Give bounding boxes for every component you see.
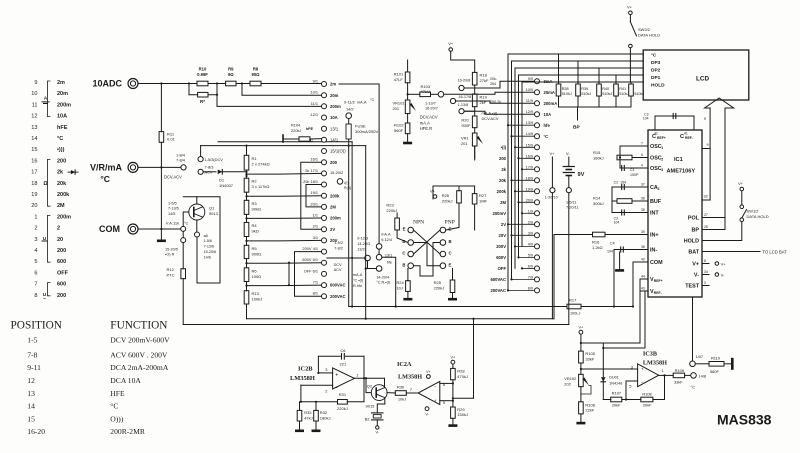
svg-text:R14: R14 bbox=[593, 196, 601, 201]
svg-text:9-12/4: 9-12/4 bbox=[381, 238, 392, 242]
svg-text:14/8: 14/8 bbox=[699, 373, 707, 378]
svg-text:33kF: 33kF bbox=[674, 380, 683, 385]
svg-text:9: 9 bbox=[704, 117, 706, 121]
svg-text:17/9: 17/9 bbox=[526, 165, 533, 169]
svg-text:V+: V+ bbox=[451, 356, 457, 360]
svg-text:°C: °C bbox=[100, 174, 110, 184]
svg-text:•))): •))) bbox=[57, 147, 65, 153]
svg-text:9V: 9V bbox=[578, 172, 585, 178]
svg-text:Q1: Q1 bbox=[209, 206, 215, 211]
svg-text:7-8/4: 7-8/4 bbox=[176, 158, 186, 163]
svg-text:600V 5/1: 600V 5/1 bbox=[302, 257, 318, 262]
svg-text:AME7106Y: AME7106Y bbox=[667, 169, 696, 175]
svg-text:8: 8 bbox=[704, 259, 706, 263]
svg-text:201: 201 bbox=[461, 141, 468, 146]
svg-text:POSITION: POSITION bbox=[11, 320, 62, 332]
svg-text:OSC: OSC bbox=[650, 144, 662, 150]
svg-text:20kF: 20kF bbox=[612, 403, 621, 408]
svg-text:R9: R9 bbox=[228, 67, 234, 72]
svg-text:DCV 200mV-600V: DCV 200mV-600V bbox=[110, 336, 170, 345]
svg-text:3: 3 bbox=[34, 237, 37, 243]
svg-text:LCD: LCD bbox=[696, 76, 710, 83]
svg-text:1MF: 1MF bbox=[479, 198, 488, 203]
svg-text:2: 2 bbox=[34, 226, 37, 232]
svg-text:47kJ: 47kJ bbox=[304, 415, 312, 420]
svg-text:200k: 200k bbox=[330, 193, 340, 198]
svg-text:3/9: 3/9 bbox=[528, 231, 533, 235]
svg-text:10A: 10A bbox=[544, 112, 552, 117]
svg-text:200: 200 bbox=[499, 156, 507, 161]
svg-text:D1: D1 bbox=[219, 178, 225, 183]
svg-text:C4: C4 bbox=[610, 242, 615, 246]
svg-text:DP2: DP2 bbox=[651, 68, 661, 74]
svg-text:2 x 274kΩ: 2 x 274kΩ bbox=[252, 161, 270, 166]
svg-text:OFF: OFF bbox=[57, 270, 69, 276]
svg-text:3: 3 bbox=[325, 367, 328, 372]
svg-text:a8: a8 bbox=[204, 234, 208, 238]
svg-text:200V: 200V bbox=[496, 244, 506, 249]
svg-text:12/9: 12/9 bbox=[526, 110, 533, 114]
svg-text:R10: R10 bbox=[199, 67, 207, 72]
svg-text:°C: °C bbox=[544, 134, 549, 139]
svg-text:MAS838: MAS838 bbox=[717, 412, 772, 428]
svg-text:REF-: REF- bbox=[654, 291, 662, 295]
svg-text:510kJ: 510kJ bbox=[562, 92, 572, 96]
svg-text:9-12/3: 9-12/3 bbox=[357, 237, 368, 241]
svg-text:2/1: 2/1 bbox=[313, 224, 318, 229]
svg-text:R3: R3 bbox=[252, 201, 258, 206]
svg-text:20m: 20m bbox=[330, 93, 339, 98]
svg-text:3: 3 bbox=[661, 168, 663, 172]
svg-text:R102: R102 bbox=[394, 123, 404, 128]
svg-text:FUNCTION: FUNCTION bbox=[110, 320, 167, 332]
svg-text:R29: R29 bbox=[457, 407, 465, 412]
svg-text:510kJ: 510kJ bbox=[602, 92, 612, 96]
svg-text:DP1: DP1 bbox=[651, 75, 661, 81]
svg-text:R5: R5 bbox=[252, 246, 258, 251]
svg-text:R1: R1 bbox=[252, 156, 258, 161]
svg-text:•(l): •(l) bbox=[501, 145, 507, 150]
svg-text:OFF 6/1: OFF 6/1 bbox=[304, 268, 318, 273]
svg-text:1/9: 1/9 bbox=[528, 209, 533, 213]
svg-text:VR1: VR1 bbox=[461, 136, 469, 141]
svg-text:°C: °C bbox=[184, 222, 189, 226]
svg-text:R28: R28 bbox=[457, 369, 465, 374]
svg-text:220kJ: 220kJ bbox=[291, 128, 301, 133]
svg-text:200: 200 bbox=[57, 158, 66, 164]
svg-text:1N4148: 1N4148 bbox=[609, 382, 622, 386]
svg-text:+: + bbox=[335, 372, 338, 378]
svg-text:1-13/8: 1-13/8 bbox=[458, 103, 469, 107]
svg-text:R39: R39 bbox=[581, 87, 588, 91]
svg-text:38: 38 bbox=[641, 245, 645, 249]
svg-text:°C: °C bbox=[691, 385, 696, 390]
svg-text:IN-: IN- bbox=[650, 248, 657, 254]
svg-text:16: 16 bbox=[31, 158, 37, 164]
svg-text:R20: R20 bbox=[461, 118, 469, 123]
svg-text:PNP: PNP bbox=[445, 219, 455, 225]
svg-text:14/1: 14/1 bbox=[330, 137, 339, 142]
svg-text:R*: R* bbox=[200, 99, 205, 104]
svg-text:32: 32 bbox=[704, 195, 708, 199]
svg-text:5: 5 bbox=[629, 384, 632, 389]
svg-text:REF+: REF+ bbox=[654, 279, 663, 283]
svg-text:R.hfe: R.hfe bbox=[353, 284, 362, 288]
svg-text:20kF: 20kF bbox=[643, 403, 652, 408]
svg-text:300mA/250V: 300mA/250V bbox=[355, 129, 378, 134]
svg-text:36: 36 bbox=[641, 197, 645, 201]
svg-text:13: 13 bbox=[31, 125, 37, 131]
svg-text:Q2: Q2 bbox=[367, 384, 373, 389]
svg-text:470kJ: 470kJ bbox=[457, 374, 468, 379]
svg-text:POL: POL bbox=[688, 215, 700, 221]
svg-text:39: 39 bbox=[641, 230, 645, 234]
svg-text:11/1: 11/1 bbox=[311, 101, 318, 106]
svg-text:IC2A: IC2A bbox=[397, 361, 412, 368]
svg-text:19: 19 bbox=[31, 192, 37, 198]
svg-text:12: 12 bbox=[31, 114, 37, 120]
svg-text:200m: 200m bbox=[330, 104, 341, 109]
svg-text:2k: 2k bbox=[501, 167, 506, 172]
svg-text:V+: V+ bbox=[579, 326, 585, 330]
svg-text:HFE.R: HFE.R bbox=[420, 126, 432, 131]
svg-text:2M: 2M bbox=[500, 200, 506, 205]
svg-text:14-20/4: 14-20/4 bbox=[376, 275, 389, 279]
svg-text:220kJ: 220kJ bbox=[442, 198, 453, 203]
svg-text:−: − bbox=[641, 380, 644, 385]
svg-text:B: B bbox=[402, 262, 405, 267]
svg-text:R40: R40 bbox=[602, 87, 609, 91]
svg-text:IC1: IC1 bbox=[674, 157, 683, 163]
svg-text:202: 202 bbox=[564, 381, 571, 386]
svg-text:15/1(O)): 15/1(O)) bbox=[330, 149, 346, 154]
svg-text:9kΩ: 9kΩ bbox=[252, 228, 259, 233]
svg-text:B: B bbox=[449, 239, 452, 244]
svg-text:15-20/2: 15-20/2 bbox=[330, 170, 343, 175]
svg-text:2V: 2V bbox=[501, 222, 506, 227]
svg-text:V+: V+ bbox=[627, 4, 633, 9]
svg-text:1-5/5: 1-5/5 bbox=[168, 202, 177, 206]
svg-text:V+: V+ bbox=[550, 151, 556, 156]
svg-text:SW2/2: SW2/2 bbox=[638, 27, 651, 32]
svg-text:DCV.ACV: DCV.ACV bbox=[420, 115, 438, 120]
svg-text:20: 20 bbox=[57, 237, 63, 243]
svg-text:ACV: ACV bbox=[334, 268, 342, 272]
svg-text:42: 42 bbox=[654, 131, 658, 135]
svg-text:V+: V+ bbox=[448, 41, 454, 46]
svg-text:6: 6 bbox=[443, 382, 446, 387]
svg-text:OSC: OSC bbox=[650, 166, 662, 172]
svg-text:9: 9 bbox=[707, 143, 709, 147]
svg-text:7-13/6: 7-13/6 bbox=[204, 245, 214, 249]
svg-text:34: 34 bbox=[704, 270, 708, 274]
svg-text:13: 13 bbox=[27, 389, 35, 398]
svg-text:2k 17/1: 2k 17/1 bbox=[305, 168, 318, 173]
svg-text:10: 10 bbox=[31, 91, 37, 97]
svg-text:16-20/8: 16-20/8 bbox=[458, 79, 471, 83]
svg-text:220kJ: 220kJ bbox=[434, 285, 445, 290]
svg-text:6: 6 bbox=[641, 153, 643, 157]
svg-text:1.2kΩ: 1.2kΩ bbox=[592, 245, 603, 250]
svg-text:200m: 200m bbox=[330, 216, 341, 221]
svg-text:9015: 9015 bbox=[366, 404, 376, 409]
svg-text:LM358H: LM358H bbox=[643, 360, 667, 367]
svg-text:COM: COM bbox=[99, 224, 120, 234]
svg-text:2: 2 bbox=[325, 389, 328, 394]
svg-text:16-20: 16-20 bbox=[27, 427, 45, 436]
svg-text:900F: 900F bbox=[461, 123, 471, 128]
svg-text:200VAC: 200VAC bbox=[490, 288, 506, 293]
svg-text:BP: BP bbox=[573, 125, 580, 131]
svg-text:900Ω: 900Ω bbox=[252, 251, 262, 256]
svg-text:V/R/mA: V/R/mA bbox=[90, 163, 123, 173]
svg-text:7-8: 7-8 bbox=[27, 351, 37, 360]
svg-text:4/9: 4/9 bbox=[528, 242, 533, 246]
svg-text:201: 201 bbox=[393, 106, 400, 111]
svg-text:7/1: 7/1 bbox=[313, 280, 318, 285]
svg-text:220kJ: 220kJ bbox=[337, 406, 348, 411]
svg-text:R26: R26 bbox=[442, 193, 450, 198]
svg-text:R16: R16 bbox=[592, 239, 600, 244]
svg-text:°C: °C bbox=[110, 402, 118, 411]
svg-text:7-8/3: 7-8/3 bbox=[205, 164, 214, 169]
svg-text:7-20/11: 7-20/11 bbox=[566, 206, 579, 210]
svg-text:VR102: VR102 bbox=[564, 376, 576, 381]
svg-text:3mA: 3mA bbox=[544, 79, 553, 84]
svg-text:200mA: 200mA bbox=[544, 101, 558, 106]
svg-text:28: 28 bbox=[704, 225, 708, 229]
svg-text:20mA: 20mA bbox=[544, 90, 555, 95]
svg-text:REF-: REF- bbox=[685, 136, 693, 140]
svg-text:V-: V- bbox=[425, 412, 429, 416]
svg-text:200R-2MR: 200R-2MR bbox=[110, 427, 146, 436]
svg-text:200m: 200m bbox=[57, 214, 71, 220]
svg-text:560F: 560F bbox=[394, 128, 404, 133]
svg-text:6/9: 6/9 bbox=[528, 264, 533, 268]
svg-text:200mV: 200mV bbox=[492, 211, 506, 216]
svg-text:R38: R38 bbox=[562, 87, 569, 91]
svg-text:14/7: 14/7 bbox=[696, 354, 704, 359]
svg-text:1-5/3(DCV: 1-5/3(DCV bbox=[205, 157, 224, 162]
svg-text:19/1: 19/1 bbox=[310, 190, 318, 195]
svg-text:R105: R105 bbox=[585, 351, 595, 356]
svg-text:DATA HOLD: DATA HOLD bbox=[747, 214, 769, 219]
svg-text:1-8/4: 1-8/4 bbox=[176, 152, 186, 157]
svg-text:ACV 600V . 200V: ACV 600V . 200V bbox=[110, 351, 168, 360]
svg-text:R106: R106 bbox=[585, 402, 595, 407]
svg-text:2M: 2M bbox=[330, 205, 336, 210]
svg-text:1N4007: 1N4007 bbox=[219, 183, 234, 188]
svg-text:16-17/8: 16-17/8 bbox=[458, 95, 471, 99]
svg-text:mA.A: mA.A bbox=[353, 273, 363, 277]
svg-text:510kJ: 510kJ bbox=[581, 92, 591, 96]
svg-text:2/9: 2/9 bbox=[528, 220, 533, 224]
svg-text:R15: R15 bbox=[593, 150, 601, 155]
svg-text:13/1: 13/1 bbox=[330, 126, 339, 131]
svg-text:600: 600 bbox=[57, 282, 66, 288]
svg-text:40: 40 bbox=[641, 258, 645, 262]
svg-text:15/9: 15/9 bbox=[526, 143, 533, 147]
svg-text:9013: 9013 bbox=[209, 211, 219, 216]
svg-text:20m: 20m bbox=[57, 91, 68, 97]
svg-text:18: 18 bbox=[31, 181, 37, 187]
svg-text:22kF: 22kF bbox=[585, 408, 594, 413]
svg-text:SW1/2: SW1/2 bbox=[747, 209, 760, 214]
svg-text:8: 8 bbox=[34, 293, 37, 299]
svg-text:R2: R2 bbox=[252, 179, 258, 184]
svg-text:1: 1 bbox=[34, 214, 37, 220]
svg-text:−: − bbox=[335, 386, 338, 392]
svg-text:R12: R12 bbox=[167, 267, 175, 272]
svg-text:R32: R32 bbox=[320, 410, 328, 415]
svg-text:20/1: 20/1 bbox=[310, 201, 318, 206]
svg-text:90Ω: 90Ω bbox=[251, 72, 260, 77]
svg-text:R6: R6 bbox=[252, 268, 258, 273]
svg-text:20/9: 20/9 bbox=[526, 198, 533, 202]
svg-text:14/5: 14/5 bbox=[168, 212, 175, 216]
svg-text:IN+: IN+ bbox=[650, 233, 659, 239]
svg-text:°C: °C bbox=[370, 98, 374, 102]
svg-text:3: 3 bbox=[704, 281, 706, 285]
svg-text:9-11: 9-11 bbox=[27, 363, 41, 372]
svg-text:INT: INT bbox=[650, 211, 659, 217]
svg-text:R31: R31 bbox=[339, 392, 347, 397]
svg-text:100P: 100P bbox=[630, 173, 639, 177]
svg-text:V.A.11k: V.A.11k bbox=[166, 221, 179, 226]
svg-text:R24: R24 bbox=[397, 280, 405, 285]
svg-text:V-: V- bbox=[694, 272, 699, 278]
svg-text:1: 1 bbox=[661, 146, 663, 150]
svg-text:10A: 10A bbox=[330, 115, 338, 120]
svg-text:18/9: 18/9 bbox=[526, 176, 533, 180]
svg-text:1-13/7: 1-13/7 bbox=[425, 101, 436, 105]
svg-text:300kJ: 300kJ bbox=[593, 201, 604, 206]
svg-text:600VAC: 600VAC bbox=[330, 283, 346, 288]
svg-text:3/1: 3/1 bbox=[313, 235, 318, 240]
svg-text:37: 37 bbox=[641, 183, 645, 187]
svg-text:44: 44 bbox=[641, 275, 645, 279]
svg-text:C: C bbox=[402, 251, 405, 256]
svg-text:5: 5 bbox=[34, 259, 37, 265]
svg-text:2m: 2m bbox=[330, 82, 336, 87]
svg-text:7: 7 bbox=[410, 387, 413, 392]
svg-text:2V: 2V bbox=[330, 227, 335, 232]
svg-text:NPN: NPN bbox=[413, 219, 424, 225]
svg-text:R101: R101 bbox=[394, 72, 404, 77]
svg-text:HFE: HFE bbox=[110, 389, 125, 398]
svg-text:1-5: 1-5 bbox=[27, 336, 37, 345]
svg-text:1: 1 bbox=[662, 368, 665, 373]
svg-text:20k 18/1: 20k 18/1 bbox=[303, 179, 318, 184]
svg-text:R108: R108 bbox=[642, 391, 651, 396]
svg-text:16-20/7: 16-20/7 bbox=[425, 107, 438, 111]
svg-text:•O) R: •O) R bbox=[165, 253, 175, 257]
svg-text:600VAC: 600VAC bbox=[490, 277, 506, 282]
svg-text:10J: 10J bbox=[397, 285, 403, 290]
svg-text:R19: R19 bbox=[480, 95, 488, 100]
svg-text:C: C bbox=[449, 251, 452, 256]
svg-text:104: 104 bbox=[643, 117, 649, 121]
svg-text:C2 154: C2 154 bbox=[614, 180, 627, 184]
svg-text:20: 20 bbox=[31, 203, 37, 209]
svg-text:IC3B: IC3B bbox=[643, 351, 657, 358]
svg-text:R33: R33 bbox=[304, 410, 312, 415]
svg-text:7/9: 7/9 bbox=[528, 275, 533, 279]
svg-text:11/9: 11/9 bbox=[526, 99, 533, 103]
svg-text:1-5/6: 1-5/6 bbox=[204, 239, 212, 243]
svg-text:E: E bbox=[403, 227, 406, 232]
svg-text:°C: °C bbox=[651, 53, 657, 58]
svg-text:7-13/5: 7-13/5 bbox=[168, 207, 179, 211]
svg-text:9/1: 9/1 bbox=[313, 79, 318, 84]
svg-text:BUF: BUF bbox=[650, 199, 662, 205]
svg-text:R17: R17 bbox=[569, 298, 577, 303]
svg-text:R41: R41 bbox=[619, 87, 626, 91]
svg-text:35: 35 bbox=[641, 208, 645, 212]
svg-text:560F: 560F bbox=[710, 369, 719, 374]
svg-text:4: 4 bbox=[34, 248, 37, 254]
svg-text:2M: 2M bbox=[57, 203, 65, 209]
svg-text:15: 15 bbox=[27, 415, 35, 424]
svg-text:PTC: PTC bbox=[167, 272, 175, 277]
svg-text:0.99F: 0.99F bbox=[197, 72, 208, 77]
svg-text:510kJ: 510kJ bbox=[619, 92, 629, 96]
svg-text:7: 7 bbox=[641, 142, 643, 146]
svg-text:20k: 20k bbox=[499, 178, 507, 183]
svg-text:104: 104 bbox=[614, 221, 620, 225]
svg-text:0.01: 0.01 bbox=[167, 137, 176, 142]
svg-text:19/9: 19/9 bbox=[526, 187, 533, 191]
svg-text:14-20/3: 14-20/3 bbox=[357, 242, 370, 246]
svg-text:600V: 600V bbox=[496, 255, 506, 260]
svg-text:C1: C1 bbox=[630, 168, 635, 172]
svg-text:180kJ: 180kJ bbox=[320, 415, 331, 420]
svg-text:R30: R30 bbox=[397, 384, 405, 389]
svg-text:R25: R25 bbox=[434, 280, 442, 285]
svg-text:20k-: 20k- bbox=[490, 77, 498, 81]
svg-text:200k: 200k bbox=[497, 189, 507, 194]
svg-text:220kJ: 220kJ bbox=[386, 208, 397, 213]
svg-text:hfe: hfe bbox=[387, 260, 392, 264]
svg-text:R104: R104 bbox=[291, 123, 301, 128]
svg-text:47LF: 47LF bbox=[394, 77, 404, 82]
svg-text:200: 200 bbox=[57, 248, 66, 254]
svg-text:264: 264 bbox=[490, 82, 496, 86]
svg-text:20k: 20k bbox=[57, 181, 67, 187]
svg-text:41: 41 bbox=[684, 131, 688, 135]
svg-text:10ADC: 10ADC bbox=[92, 79, 122, 89]
svg-text:16/9: 16/9 bbox=[526, 154, 533, 158]
svg-text:R4: R4 bbox=[252, 223, 258, 228]
svg-text:R13: R13 bbox=[252, 291, 260, 296]
svg-text:REF+: REF+ bbox=[657, 136, 666, 140]
svg-text:+: + bbox=[641, 366, 644, 371]
svg-text:B2: B2 bbox=[365, 417, 371, 422]
svg-text:C6: C6 bbox=[340, 348, 346, 353]
svg-text:R109: R109 bbox=[675, 368, 684, 373]
svg-text:R8: R8 bbox=[253, 67, 259, 72]
svg-text:VR101: VR101 bbox=[393, 101, 405, 106]
svg-text:R107: R107 bbox=[612, 391, 621, 396]
svg-text:1-5/2: 1-5/2 bbox=[334, 241, 343, 245]
svg-text:V+: V+ bbox=[721, 262, 727, 267]
svg-text:DP3: DP3 bbox=[651, 60, 661, 66]
svg-text:12: 12 bbox=[27, 376, 35, 385]
svg-text:hFE: hFE bbox=[306, 127, 314, 131]
svg-text:1: 1 bbox=[356, 372, 359, 377]
svg-text:OFF: OFF bbox=[498, 266, 507, 271]
svg-text:9Ω: 9Ω bbox=[228, 72, 234, 77]
